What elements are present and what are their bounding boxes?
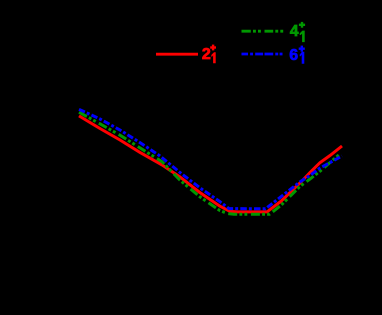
legend label 2_1+ superscript plus [210, 45, 216, 51]
legend sample line 4_1+ (green) [242, 30, 284, 33]
curve 6_1+ (blue dash-dot) [79, 109, 342, 209]
legend label 6_1+ digit 6 [289, 48, 298, 64]
legend label 2_1+ subscript 1 [211, 52, 215, 63]
legend label 6_1+ subscript 1 [300, 52, 305, 64]
legend label 4_1+ superscript plus [299, 22, 305, 28]
legend label 6_1+ superscript plus [299, 46, 305, 52]
legend sample line 2_1+ (red) [156, 53, 198, 56]
curve 4_1+ (green dashed) [79, 112, 341, 214]
curve 2_1+ (red solid) [79, 116, 342, 212]
legend label 4_1+ subscript 1 [300, 31, 305, 42]
legend sample line 6_1+ (blue) [242, 53, 283, 56]
legend label 4_1+ digit 4 [290, 24, 299, 40]
legend label 2_1+ digit 2 [202, 47, 211, 63]
